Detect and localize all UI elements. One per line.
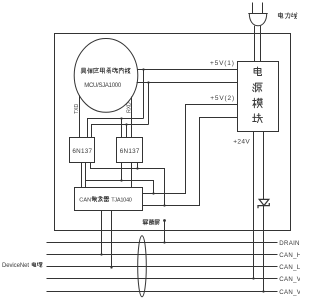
svg-text:CAN_V+: CAN_V+	[279, 276, 300, 283]
wire CANL drop	[111, 211, 113, 268]
junction	[120, 117, 122, 119]
svg-text:RXD: RXD	[127, 102, 133, 113]
wire crossover L1	[91, 163, 165, 206]
wire U3 pin to U4	[81, 163, 83, 188]
outer frame	[55, 34, 291, 231]
wire plug to module	[254, 26, 256, 62]
plug prong	[252, 3, 254, 14]
svg-text:6N137: 6N137	[72, 148, 92, 155]
wire rail1 to opto tops	[88, 119, 144, 138]
wire U2 pin to U4	[131, 163, 133, 188]
bus line CAN_V-	[47, 291, 278, 293]
wire U2 pin	[121, 163, 123, 181]
svg-text:+5V(2): +5V(2)	[210, 95, 235, 102]
wire riser2	[148, 83, 150, 125]
junction	[110, 266, 112, 268]
label 屏蔽层	[143, 220, 159, 225]
CAN transceiver U4 TJA1040	[75, 188, 143, 211]
bus line CAN_L	[47, 266, 278, 268]
junction	[252, 277, 254, 279]
junction	[147, 81, 149, 83]
wire +24V to CAN_V+	[253, 132, 255, 279]
label 具体应用系统内核	[81, 68, 130, 74]
wire drop to U2 pin	[121, 119, 123, 138]
junction	[142, 68, 144, 70]
wire rail2 to opto tops	[92, 125, 149, 138]
svg-text:6N137: 6N137	[120, 148, 140, 155]
wire CANH drop	[101, 211, 103, 255]
svg-text:CAN_V-: CAN_V-	[279, 289, 300, 296]
optocoupler U3 6N137	[70, 138, 95, 163]
plug prong	[262, 3, 264, 14]
svg-text:TXD: TXD	[74, 104, 80, 114]
svg-text:MCU/SJA1000: MCU/SJA1000	[84, 83, 122, 89]
wire riser1	[143, 70, 145, 119]
zener diode D1	[259, 199, 269, 205]
wire U2 pin	[137, 163, 139, 169]
bus line CAN_H	[47, 254, 278, 256]
svg-text:CAN_L: CAN_L	[279, 264, 300, 271]
power module 电源模块	[238, 62, 279, 132]
svg-text:CAN: CAN	[79, 198, 91, 204]
junction	[152, 192, 154, 194]
wire rail2	[137, 82, 238, 84]
bus line CAN_V+	[47, 278, 278, 280]
junction	[125, 123, 127, 125]
junction	[136, 167, 138, 169]
wire drop to U2 pin	[126, 125, 128, 138]
wire shield to DRAIN	[164, 221, 166, 243]
svg-text:+24V: +24V	[233, 138, 250, 145]
wire +5V(2)	[143, 105, 238, 194]
bus line DRAIN	[47, 242, 278, 244]
optocoupler U2 6N137	[117, 138, 143, 163]
junction	[262, 290, 264, 292]
wire +5V(1) rail	[137, 69, 237, 71]
label 电力线	[278, 13, 297, 19]
junction	[100, 253, 102, 255]
junction	[120, 179, 122, 181]
wire crossover L2	[86, 181, 154, 194]
cable bundle ellipse	[138, 236, 147, 297]
wire RXD	[131, 97, 133, 138]
wire U3 pin to U4	[85, 163, 87, 188]
svg-text:DRAIN: DRAIN	[279, 240, 299, 247]
svg-text:TJA1040: TJA1040	[111, 198, 131, 204]
wire vref	[143, 118, 238, 206]
MCU/SJA1000 core ellipse U1	[74, 39, 138, 113]
junction	[163, 241, 165, 243]
node shield tap	[163, 219, 166, 222]
junction	[163, 204, 165, 206]
wire to CAN_V-	[263, 132, 265, 292]
svg-text:+5V(1): +5V(1)	[210, 60, 235, 67]
svg-text:CAN_H: CAN_H	[279, 252, 300, 259]
svg-text:DeviceNet: DeviceNet	[2, 263, 29, 269]
wire TXD	[79, 95, 81, 137]
wire plug to module	[260, 26, 262, 62]
